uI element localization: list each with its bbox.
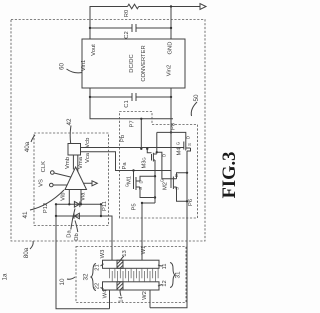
- wire Vin1 down: [90, 88, 173, 119]
- hatched element 13: [117, 260, 123, 268]
- svg-text:G: G: [160, 179, 165, 182]
- svg-text:VS: VS: [39, 179, 45, 187]
- svg-text:P7: P7: [130, 120, 136, 127]
- svg-text:Vcb: Vcb: [85, 138, 91, 148]
- svg-text:31: 31: [175, 271, 182, 279]
- wire Vout top line: [90, 7, 200, 40]
- wire W4: [109, 290, 111, 309]
- svg-text:GND: GND: [168, 42, 174, 55]
- diode ring: [56, 204, 101, 216]
- svg-text:CONVERTER: CONVERTER: [141, 45, 147, 81]
- wire M1 drain up: [140, 176, 155, 181]
- svg-text:40a: 40a: [24, 141, 31, 152]
- svg-text:Vib: Vib: [61, 193, 67, 201]
- outer dashed box 50: [11, 20, 205, 242]
- svg-text:14: 14: [119, 296, 125, 303]
- wire P12 to W4: [56, 216, 110, 309]
- svg-text:Da: Da: [67, 230, 73, 238]
- dashed box 10: [76, 247, 186, 303]
- transistor M3: [147, 149, 157, 162]
- svg-text:Db: Db: [74, 233, 80, 240]
- svg-text:10: 10: [59, 278, 66, 286]
- capacitor C2: [132, 24, 136, 32]
- svg-text:FIG.3: FIG.3: [220, 152, 240, 199]
- leader 21: [101, 264, 104, 266]
- svg-text:G: G: [141, 157, 146, 160]
- leader for 50: [191, 102, 197, 116]
- svg-text:Vin2: Vin2: [167, 65, 173, 77]
- ring dots: [55, 203, 57, 205]
- svg-text:W2: W2: [142, 291, 148, 300]
- svg-text:G: G: [125, 184, 130, 187]
- svg-text:Vmb: Vmb: [65, 157, 71, 169]
- wire W2: [149, 290, 151, 308]
- wire M3 drain node to M2 drain: [157, 152, 173, 178]
- node dots top: [170, 5, 172, 7]
- svg-text:11: 11: [162, 263, 168, 269]
- svg-text:C2: C2: [124, 31, 130, 38]
- svg-text:CLK: CLK: [41, 161, 47, 172]
- brace 32: [91, 264, 96, 291]
- svg-text:1a: 1a: [2, 273, 9, 281]
- wire M4 source to P6 vertical: [150, 151, 187, 308]
- upper electrode bar 11: [103, 260, 160, 268]
- wire GND continuation down to M2 gate: [170, 88, 172, 178]
- dashed box 40a: [34, 133, 109, 226]
- svg-text:R0: R0: [124, 10, 130, 17]
- svg-text:41: 41: [22, 211, 29, 219]
- svg-text:G: G: [176, 142, 181, 145]
- op-amp 41: [65, 167, 87, 190]
- op-amp output arrow: [84, 181, 98, 186]
- capacitor C1: [132, 93, 136, 101]
- wire M1 source down: [140, 187, 155, 198]
- wire Pa (Vca) line: [81, 152, 172, 171]
- svg-text:21: 21: [95, 264, 101, 270]
- transistor M4: [184, 141, 191, 152]
- diode Da: [74, 202, 79, 208]
- svg-text:Pa: Pa: [122, 162, 128, 170]
- lower comb teeth: [112, 271, 155, 282]
- wire Pb (Vcb) line: [81, 147, 184, 149]
- wire M3 source down: [154, 160, 156, 203]
- wire GND vertical top: [170, 7, 172, 40]
- terminal CLK: [51, 171, 55, 175]
- svg-text:Via: Via: [81, 192, 87, 201]
- wire Vin2/GND down: [170, 88, 172, 119]
- wires Vib Via: [69, 190, 81, 205]
- diode Db: [74, 213, 79, 219]
- svg-text:42: 42: [66, 118, 73, 126]
- node dots C1: [89, 96, 91, 98]
- svg-text:Pb: Pb: [120, 135, 126, 142]
- svg-text:22: 22: [95, 283, 101, 289]
- wire M2 drain to P6: [177, 173, 188, 179]
- dashed box 30 driver: [120, 112, 198, 219]
- svg-text:W3: W3: [100, 250, 106, 259]
- svg-text:P6: P6: [188, 199, 194, 206]
- leader 22: [101, 288, 104, 290]
- svg-text:Vout: Vout: [91, 44, 97, 56]
- svg-text:M3: M3: [141, 160, 147, 168]
- svg-text:80a: 80a: [23, 247, 30, 258]
- svg-text:M2: M2: [163, 182, 169, 190]
- hatched element 14: [117, 282, 123, 290]
- wire P5 node and drop to W1: [142, 203, 155, 260]
- svg-text:Vma: Vma: [78, 156, 84, 169]
- terminal VS: [50, 183, 54, 187]
- DC/DC converter 60: [82, 39, 185, 88]
- svg-text:S: S: [187, 143, 192, 146]
- lower electrode bar 12: [103, 282, 160, 290]
- svg-text:13: 13: [122, 250, 128, 256]
- wire P11 to W3: [101, 216, 112, 260]
- leader for 80a: [30, 241, 33, 249]
- wire M2 source to P6: [177, 187, 188, 201]
- svg-text:D: D: [138, 180, 143, 183]
- svg-text:DC/DC: DC/DC: [129, 54, 135, 72]
- svg-text:M4: M4: [177, 147, 183, 156]
- block 42: [68, 144, 81, 156]
- svg-text:50: 50: [193, 94, 200, 102]
- output terminal arrow: [200, 4, 206, 10]
- transistor M1: [134, 171, 141, 191]
- svg-text:P11: P11: [102, 201, 108, 211]
- svg-text:12: 12: [162, 280, 168, 286]
- svg-text:C1: C1: [124, 100, 130, 107]
- svg-text:60: 60: [59, 63, 66, 71]
- wires Vmb Vma: [73, 155, 77, 172]
- resistor R0: [128, 4, 139, 9]
- svg-text:M1: M1: [127, 176, 133, 184]
- svg-text:Vin1: Vin1: [81, 60, 87, 72]
- svg-text:P12: P12: [43, 203, 49, 213]
- svg-text:W4: W4: [103, 289, 109, 298]
- wire C1 line: [90, 96, 171, 98]
- svg-text:W1: W1: [141, 246, 147, 255]
- brace 31: [170, 263, 175, 288]
- svg-text:D: D: [161, 154, 166, 157]
- upper comb teeth: [110, 268, 159, 278]
- transistor M2: [171, 177, 177, 190]
- wire C2 line: [90, 27, 171, 29]
- wire P7 drop (rail to Pb line): [140, 119, 142, 149]
- wire P8 branch to M4: [157, 132, 186, 152]
- svg-text:Vca: Vca: [85, 152, 91, 163]
- svg-text:D: D: [186, 136, 191, 139]
- svg-text:P5: P5: [132, 203, 138, 210]
- svg-text:32: 32: [83, 273, 90, 281]
